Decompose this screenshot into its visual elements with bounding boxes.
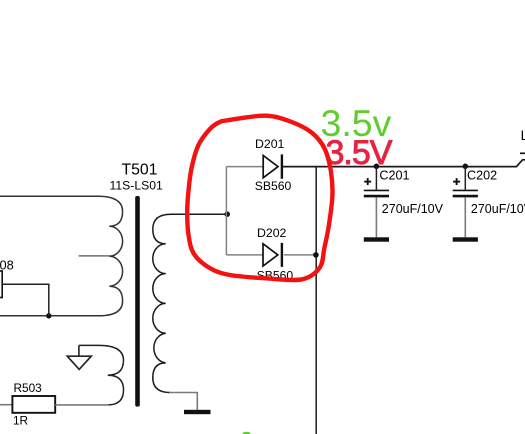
capacitor C201 [364, 164, 389, 238]
transformer core [135, 196, 140, 407]
node: junction dot D202 output [313, 252, 319, 258]
svg-text:3.5V: 3.5V [326, 134, 393, 172]
diode D202 [263, 243, 282, 267]
wire from R503 right to auxiliary winding [55, 404, 109, 406]
wire from R508 box to bottom primary wire [2, 284, 49, 316]
annotation red circle around diodes [187, 116, 332, 280]
svg-text:D201: D201 [255, 137, 285, 151]
wire: main 3.5V rail [282, 160, 525, 167]
primary winding upper (with top lead wire and bottom lead wire) [0, 196, 123, 316]
svg-text:270uF/10V: 270uF/10V [471, 202, 525, 216]
wire: to D201 anode [226, 166, 263, 168]
svg-text:R503: R503 [14, 381, 43, 395]
resistor R503 body [12, 396, 55, 413]
svg-text:270uF/10V: 270uF/10V [382, 202, 444, 216]
capacitor C202 [453, 164, 478, 238]
wire into R503 left [0, 404, 12, 406]
primary winding center tap stub [79, 255, 110, 257]
wire: to D202 anode [226, 254, 263, 256]
svg-text:11S-LS01: 11S-LS01 [110, 179, 164, 193]
node: junction dot on bottom primary wire [46, 313, 51, 318]
svg-text:D202: D202 [257, 226, 287, 240]
node: junction dot secondary top / diode split [224, 211, 230, 217]
wire: D202 cathode to node [284, 254, 316, 256]
ground bar (secondary) [184, 410, 211, 414]
svg-text:1R: 1R [13, 414, 28, 428]
svg-text:T501: T501 [122, 161, 158, 178]
annotation green mark at bottom edge [242, 432, 250, 434]
primary auxiliary winding (lower, 2 bumps) [79, 345, 124, 405]
wire: vertical output node line [315, 167, 317, 434]
ground bar under C202 [453, 237, 478, 241]
wire from secondary winding bottom to ground [169, 393, 197, 410]
svg-text:SB560: SB560 [255, 179, 292, 193]
svg-text:08: 08 [0, 257, 14, 272]
wire: vertical diode input branch [225, 167, 227, 255]
svg-text:L: L [521, 128, 525, 143]
svg-text:C202: C202 [467, 168, 497, 182]
wire: inductor lead stub top right [520, 152, 525, 154]
chassis arrow symbol [67, 345, 91, 369]
diode D201 [263, 154, 282, 178]
ground bar under C201 [364, 237, 389, 241]
secondary winding (6 bumps) with top lead [153, 214, 228, 392]
